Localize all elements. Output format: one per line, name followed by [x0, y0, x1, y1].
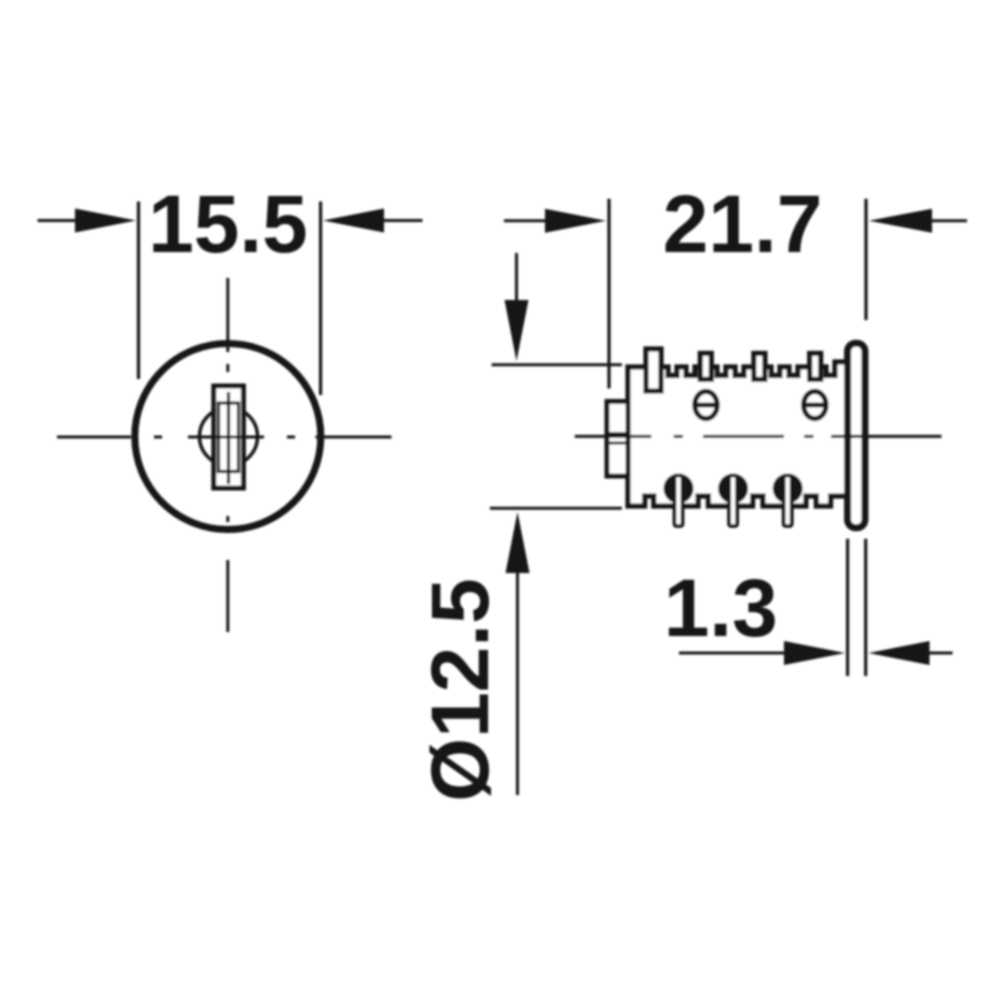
dimension 21.7: right arrow	[869, 209, 967, 233]
dimension 21.7: left extension line	[607, 199, 610, 389]
dimension 15.5: left arrow	[38, 209, 137, 233]
front view: cylinder face circle	[135, 344, 321, 530]
svg-text:21.7: 21.7	[663, 179, 823, 270]
front view: cylinder plug circle	[200, 408, 258, 466]
front view: horizontal centerline	[57, 436, 392, 439]
dimension 1.3: right arrow	[869, 641, 953, 665]
side view: bottom pin 3	[773, 474, 803, 527]
dimension 15.5: right arrow	[323, 209, 423, 233]
dimension 21.7: left arrow	[504, 209, 606, 233]
front view: keyhole outer rectangle	[214, 386, 244, 488]
side view: bottom pin 1	[664, 474, 694, 527]
front view: vertical centerline	[226, 278, 229, 632]
side view: left cam protrusion	[607, 402, 628, 477]
dimension 1.3: right extension line	[864, 539, 867, 676]
dimension 1.3: left extension line	[846, 539, 849, 676]
side view: screw head 1	[693, 391, 719, 418]
dimension D12.5: bottom arrow pointing up	[506, 512, 530, 795]
side view: tall top tab 1	[646, 349, 661, 391]
side view: front flange	[848, 343, 865, 527]
front view: key slot center line	[227, 392, 230, 484]
side view: screw head 2	[802, 391, 828, 418]
dimension 15.5: right extension line	[319, 202, 322, 396]
svg-text:1.3: 1.3	[664, 563, 778, 654]
dimension D12.5: bottom extension line	[490, 507, 622, 510]
dimension 1.3: left arrow	[679, 641, 845, 665]
dimension 15.5: left extension line	[137, 202, 140, 380]
svg-text:15.5: 15.5	[148, 179, 308, 270]
front view: keyhole inner rectangle	[219, 403, 239, 472]
side view: bottom pin 2	[718, 474, 748, 527]
side view: top tab 3	[754, 353, 765, 379]
dimension 21.7: right extension line	[864, 199, 867, 320]
side view: top tab 2	[700, 353, 711, 379]
side view: horizontal centerline	[575, 435, 942, 438]
side view: top tab 4	[810, 353, 821, 379]
svg-text:Ø12.5: Ø12.5	[415, 578, 506, 801]
dimension D12.5: top arrow pointing down	[505, 253, 529, 361]
dimension D12.5: top extension line	[492, 363, 622, 366]
side view: body outline with castellated edges	[628, 362, 849, 506]
